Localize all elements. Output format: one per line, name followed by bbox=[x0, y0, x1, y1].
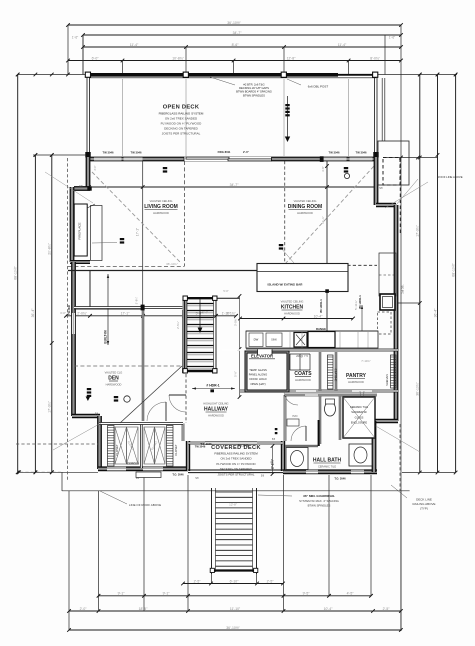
svg-text:DECKING ON TAPERED: DECKING ON TAPERED bbox=[164, 127, 199, 131]
svg-text:HARDWOOD: HARDWOOD bbox=[348, 380, 364, 384]
svg-text:TW 3046: TW 3046 bbox=[103, 150, 114, 154]
svg-text:5’-0”: 5’-0” bbox=[223, 289, 228, 293]
svg-text:10’-8¾”: 10’-8¾” bbox=[172, 56, 184, 60]
svg-text:7’-10¾”: 7’-10¾” bbox=[361, 359, 371, 363]
svg-text:PLYWOOD ON ¾” PLYWOOD: PLYWOOD ON ¾” PLYWOOD bbox=[216, 462, 255, 466]
svg-text:HALLWAY: HALLWAY bbox=[204, 407, 229, 413]
svg-text:DEN: DEN bbox=[108, 376, 119, 382]
svg-text:HARDWOOD: HARDWOOD bbox=[208, 414, 224, 418]
svg-text:FIBERGLASS RAILING SYSTEM: FIBERGLASS RAILING SYSTEM bbox=[159, 112, 204, 116]
svg-text:2’-5”: 2’-5” bbox=[267, 579, 274, 583]
svg-text:KITCHEN: KITCHEN bbox=[281, 305, 304, 311]
svg-text:DECKING W/ 1/8” GAPS: DECKING W/ 1/8” GAPS bbox=[239, 86, 269, 90]
svg-text:TW 3046: TW 3046 bbox=[356, 150, 367, 154]
svg-text:OPEN (HAT): OPEN (HAT) bbox=[250, 382, 265, 386]
svg-text:2’-0¾”: 2’-0¾” bbox=[77, 312, 87, 316]
svg-text:DECKING ON TAPERED: DECKING ON TAPERED bbox=[220, 467, 253, 471]
svg-text:20’-8¾”: 20’-8¾” bbox=[48, 243, 52, 255]
svg-text:17’-3¾”: 17’-3¾” bbox=[48, 401, 52, 413]
svg-text:BTWN BOARDS 4” SPACING: BTWN BOARDS 4” SPACING bbox=[236, 90, 272, 94]
svg-text:PANTRY: PANTRY bbox=[346, 373, 367, 379]
svg-text:JOISTS PER STRUCTURAL: JOISTS PER STRUCTURAL bbox=[217, 472, 254, 476]
svg-text:OPEN DECK: OPEN DECK bbox=[163, 105, 200, 111]
svg-text:5’-8¾”: 5’-8¾” bbox=[135, 297, 139, 304]
svg-text:ELEVATOR: ELEVATOR bbox=[251, 354, 273, 359]
svg-text:LINE OF ROOF ABOVE: LINE OF ROOF ABOVE bbox=[129, 503, 161, 507]
svg-text:TW 3046: TW 3046 bbox=[329, 150, 340, 154]
svg-text:SINK: SINK bbox=[271, 339, 277, 342]
svg-text:H2O: H2O bbox=[293, 415, 298, 418]
svg-text:3’-0”: 3’-0” bbox=[94, 165, 97, 170]
svg-text:5’-6”: 5’-6” bbox=[233, 371, 237, 377]
svg-text:COATS: COATS bbox=[294, 371, 312, 377]
svg-text:TEMP. GLASS: TEMP. GLASS bbox=[249, 368, 267, 372]
svg-text:12’-8”: 12’-8” bbox=[229, 503, 237, 507]
svg-text:TW 3046: TW 3046 bbox=[131, 150, 142, 154]
svg-text:VAULTED CLG: VAULTED CLG bbox=[105, 371, 123, 375]
svg-text:BUILT-IN: BUILT-IN bbox=[104, 330, 108, 344]
svg-text:HARDWOOD: HARDWOOD bbox=[153, 211, 169, 215]
svg-text:11’-10”: 11’-10” bbox=[230, 607, 240, 611]
svg-text:JOISTS PER STRUCTURAL: JOISTS PER STRUCTURAL bbox=[162, 132, 201, 136]
svg-text:DINING ROOM: DINING ROOM bbox=[288, 204, 322, 210]
svg-text:SHOWER W/: SHOWER W/ bbox=[351, 410, 367, 414]
svg-text:2’-0”: 2’-0” bbox=[80, 607, 87, 611]
svg-text:# HDR-1: # HDR-1 bbox=[206, 384, 219, 388]
svg-text:68’-10½”: 68’-10½” bbox=[14, 266, 18, 279]
svg-text:DOOR. HOLD: DOOR. HOLD bbox=[249, 377, 266, 381]
svg-text:T.O. 3046: T.O. 3046 bbox=[172, 473, 184, 477]
svg-text:ROOF LINE ABOVE: ROOF LINE ABOVE bbox=[437, 175, 462, 179]
svg-text:34’-7”: 34’-7” bbox=[230, 183, 239, 187]
svg-text:36’-10½”: 36’-10½” bbox=[226, 626, 239, 630]
svg-text:VAULTED CEILING: VAULTED CEILING bbox=[150, 199, 173, 203]
svg-text:CLOSET: CLOSET bbox=[174, 444, 178, 455]
svg-text:11’-4”: 11’-4” bbox=[338, 43, 346, 47]
svg-text:#2 BTR. 2x6 T&G: #2 BTR. 2x6 T&G bbox=[243, 83, 264, 87]
svg-text:FIBERGLASS RAILING SYSTEM: FIBERGLASS RAILING SYSTEM bbox=[214, 452, 258, 456]
svg-text:HALL BATH: HALL BATH bbox=[313, 458, 342, 464]
svg-text:5’-4”: 5’-4” bbox=[202, 311, 208, 315]
svg-text:36” MIN. GUARDRAIL: 36” MIN. GUARDRAIL bbox=[303, 494, 335, 498]
svg-text:T.O. 3046: T.O. 3046 bbox=[334, 477, 346, 481]
svg-text:HARDWOOD: HARDWOOD bbox=[297, 211, 313, 215]
svg-text:FIREPLACE: FIREPLACE bbox=[78, 222, 82, 239]
svg-text:18’-5”: 18’-5” bbox=[139, 607, 148, 611]
svg-text:GLASS: GLASS bbox=[355, 415, 364, 419]
svg-text:10’-4”: 10’-4” bbox=[314, 314, 323, 318]
svg-text:RAILING ABOVE: RAILING ABOVE bbox=[412, 502, 435, 506]
svg-text:2R @ 7.5: 2R @ 7.5 bbox=[296, 354, 308, 358]
svg-text:9’-1”: 9’-1” bbox=[163, 592, 170, 596]
svg-text:3’-6”: 3’-6” bbox=[321, 166, 325, 171]
svg-text:36’-10½”: 36’-10½” bbox=[227, 21, 240, 25]
svg-text:12’-8”: 12’-8” bbox=[287, 56, 296, 60]
svg-text:HARDWOOD: HARDWOOD bbox=[295, 378, 311, 382]
svg-text:1’-6”: 1’-6” bbox=[72, 36, 78, 40]
svg-text:CERAMIC TILE: CERAMIC TILE bbox=[350, 405, 368, 409]
svg-text:2’-5”: 2’-5” bbox=[194, 579, 201, 583]
svg-text:9’-1”: 9’-1” bbox=[118, 592, 125, 596]
svg-text:2’-5¼”: 2’-5¼” bbox=[176, 321, 180, 329]
svg-text:LIVING ROOM: LIVING ROOM bbox=[144, 204, 178, 210]
svg-text:17’-1”: 17’-1” bbox=[136, 228, 140, 236]
svg-text:6x6 DBL POST: 6x6 DBL POST bbox=[308, 85, 329, 89]
svg-text:SHELVES: SHELVES bbox=[385, 374, 389, 386]
svg-text:BTWN SPINDLES: BTWN SPINDLES bbox=[308, 503, 331, 507]
svg-text:8’-0¾”: 8’-0¾” bbox=[370, 56, 380, 60]
svg-text:2’-5”: 2’-5” bbox=[383, 607, 390, 611]
svg-text:9’-5”: 9’-5” bbox=[303, 592, 310, 596]
svg-text:W/ HDR-1: W/ HDR-1 bbox=[358, 295, 362, 309]
svg-text:CERAMIC TILE: CERAMIC TILE bbox=[318, 465, 336, 469]
svg-text:ISLAND W/ EATING BAR: ISLAND W/ EATING BAR bbox=[268, 283, 304, 287]
svg-text:7’-1¾”: 7’-1¾” bbox=[226, 312, 235, 316]
svg-text:DW: DW bbox=[254, 338, 259, 342]
svg-text:SYSTEM W/ MAX. 4” SPACING: SYSTEM W/ MAX. 4” SPACING bbox=[299, 499, 339, 503]
svg-text:17’-3¾”: 17’-3¾” bbox=[416, 225, 420, 237]
svg-text:ON 2x6 TREX SANDED: ON 2x6 TREX SANDED bbox=[165, 117, 198, 121]
svg-text:BTWN SPINDLES: BTWN SPINDLES bbox=[243, 93, 265, 97]
svg-text:4’-5”: 4’-5” bbox=[347, 592, 354, 596]
svg-text:ON 2x6 TREX SANDED: ON 2x6 TREX SANDED bbox=[220, 457, 251, 461]
svg-text:FWG 8011: FWG 8011 bbox=[218, 150, 231, 154]
svg-text:T.O. 3046: T.O. 3046 bbox=[200, 442, 212, 446]
svg-text:TW 3046: TW 3046 bbox=[68, 304, 71, 314]
svg-text:11’-4”: 11’-4” bbox=[130, 43, 138, 47]
svg-text:36’-10¾”: 36’-10¾” bbox=[166, 262, 178, 266]
svg-text:DECK LINE: DECK LINE bbox=[416, 498, 432, 502]
svg-text:2x6 DBL: 2x6 DBL bbox=[402, 284, 405, 294]
svg-text:HARDWOOD: HARDWOOD bbox=[106, 383, 122, 387]
svg-text:11’-1”: 11’-1” bbox=[321, 216, 325, 224]
svg-text:17’-1”: 17’-1” bbox=[121, 312, 130, 316]
svg-text:36’-10¾”: 36’-10¾” bbox=[416, 382, 420, 395]
svg-text:RANGE: RANGE bbox=[316, 327, 326, 331]
svg-text:W/ HDR-1: W/ HDR-1 bbox=[319, 299, 323, 313]
svg-text:PLYWOOD ON ¾” PLYWOOD: PLYWOOD ON ¾” PLYWOOD bbox=[161, 122, 203, 126]
svg-text:36’-4”: 36’-4” bbox=[31, 309, 35, 318]
svg-text:36’-4”: 36’-4” bbox=[433, 309, 437, 318]
svg-text:68’-10½”: 68’-10½” bbox=[451, 263, 455, 276]
svg-text:3’-0¾”: 3’-0¾” bbox=[233, 318, 237, 326]
svg-text:HARDWOOD: HARDWOOD bbox=[284, 312, 300, 316]
svg-text:VAULTED CEILING: VAULTED CEILING bbox=[294, 199, 317, 203]
svg-text:SHELVES: SHELVES bbox=[334, 369, 338, 382]
svg-text:HIGHLIGHT CEILING: HIGHLIGHT CEILING bbox=[203, 402, 228, 406]
svg-text:VAULTED CEILING: VAULTED CEILING bbox=[281, 300, 304, 304]
svg-text:ENCLOSURE: ENCLOSURE bbox=[351, 421, 367, 425]
svg-text:34’-7”: 34’-7” bbox=[233, 31, 242, 35]
svg-text:6’-10”: 6’-10” bbox=[230, 579, 239, 583]
svg-text:1’-6”: 1’-6” bbox=[389, 36, 395, 40]
svg-text:2’-0”: 2’-0” bbox=[243, 150, 250, 154]
svg-text:6’-0”: 6’-0” bbox=[92, 56, 99, 60]
svg-text:COVERED DECK: COVERED DECK bbox=[211, 445, 261, 451]
svg-text:3’-0”: 3’-0” bbox=[60, 311, 66, 315]
svg-text:PANEL ALONG: PANEL ALONG bbox=[249, 373, 268, 377]
svg-text:8’-6”: 8’-6” bbox=[232, 43, 239, 47]
svg-text:10’-4”: 10’-4” bbox=[324, 607, 333, 611]
svg-text:(TYP): (TYP) bbox=[420, 507, 428, 511]
